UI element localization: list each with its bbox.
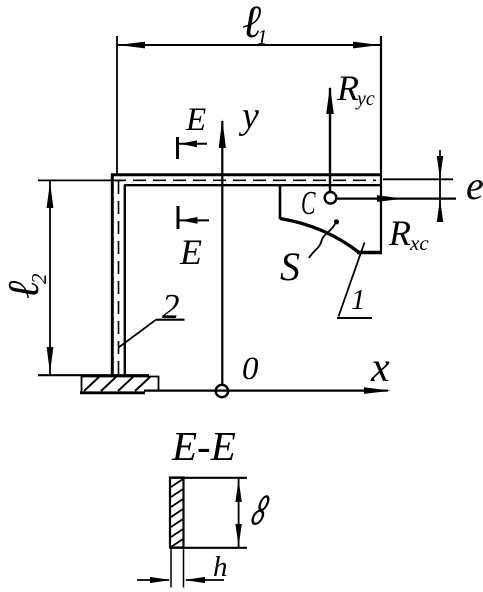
svg-text:1: 1 [351,284,366,316]
svg-text:E-E: E-E [171,423,236,469]
svg-text:e: e [466,163,483,208]
dimension e [437,150,443,222]
section top line [170,477,247,479]
svg-text:2: 2 [27,273,51,284]
leader dot for S [334,219,339,224]
y axis [219,119,226,386]
beam dashed centerline [113,179,376,181]
extension line left (l1) [116,36,118,174]
ground line [38,374,149,376]
svg-text:y: y [238,95,259,137]
svg-text:x: x [370,345,390,391]
force Rxc label [388,213,429,255]
origin O circle [216,385,228,397]
label b [251,496,270,523]
leader line for 1 [337,243,372,319]
svg-text:E: E [185,102,206,138]
dimension h extension lines [171,548,184,588]
dimension label l2 (rotated) [0,273,51,299]
svg-text:yc: yc [355,88,375,110]
svg-text:h: h [213,551,228,583]
dimension label l1 [242,0,268,49]
dimension h [137,577,224,583]
svg-text:xc: xc [409,231,429,255]
force Ryc label [336,68,375,110]
centerline extension right (for e) [383,178,453,180]
svg-text:S: S [280,244,300,289]
svg-text:2: 2 [162,287,180,326]
svg-text:R: R [388,213,411,253]
column dashed centerline [118,181,120,374]
section wall (hatched) [170,478,184,548]
svg-text:E: E [179,232,202,272]
bracket 1 (curved plate) [280,184,382,253]
extension line right (l1) / bracket right edge [380,36,382,254]
column member 2 (vertical bar) [112,174,125,375]
force Ryc arrow [326,86,334,194]
leader line for 2 [119,320,185,348]
dimension line l2 [38,180,123,374]
section marker E bottom [178,206,209,229]
leader squiggle for S [309,224,335,258]
beam member (horizontal bar) [111,175,381,185]
section bottom line [170,547,247,549]
svg-text:R: R [336,68,359,108]
dimension line l1 [117,42,381,49]
svg-text:C: C [301,185,316,222]
section marker E top [178,137,208,159]
x axis [144,387,391,394]
force Rxc line [337,195,456,202]
dimension b (Cyrillic ve) [235,478,241,548]
point C circle [325,192,337,204]
svg-text:0: 0 [242,351,259,387]
ground hatch block [80,377,159,393]
